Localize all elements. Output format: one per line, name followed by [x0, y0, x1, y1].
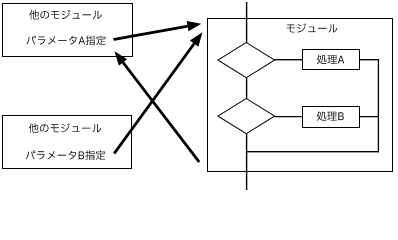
box: other module B (他のモジュール / パラメータB指定)	[3, 116, 132, 169]
text 処理B	[317, 111, 344, 121]
wire: right vertical return line	[377, 59, 379, 152]
box: module (モジュール)	[208, 19, 393, 172]
box: other module A (他のモジュール / パラメータA指定)	[3, 4, 133, 57]
text 他のモジュール (top box line 1)	[29, 10, 102, 20]
wire: bottom return line to main flow line	[246, 151, 379, 153]
box: 処理B	[303, 107, 360, 128]
text パラメータA指定 (top box line 2)	[26, 36, 105, 46]
wire: diamond2 right vertex to 処理B box	[275, 116, 304, 118]
arrow B: module bottom-left back to top box	[123, 62, 199, 162]
wire: diamond1 right vertex to 処理A box	[275, 59, 304, 61]
text 処理A	[317, 55, 345, 65]
box: 処理A	[303, 50, 360, 70]
arrow C: bottom box パラメータB指定 to module	[114, 44, 194, 154]
decision diamond 2	[218, 99, 275, 134]
text パラメータB指定 (bottom box line 2)	[26, 150, 105, 160]
wire: main vertical flow line	[246, 2, 248, 190]
arrow A: top box パラメータA指定 to module	[114, 26, 188, 39]
text モジュール (module label)	[287, 23, 338, 32]
wire: 処理A box to right return line	[360, 59, 379, 61]
text 他のモジュール (bottom box line 1)	[29, 123, 102, 133]
wire: 処理B box to right return line	[360, 116, 379, 118]
decision diamond 1	[218, 43, 275, 78]
